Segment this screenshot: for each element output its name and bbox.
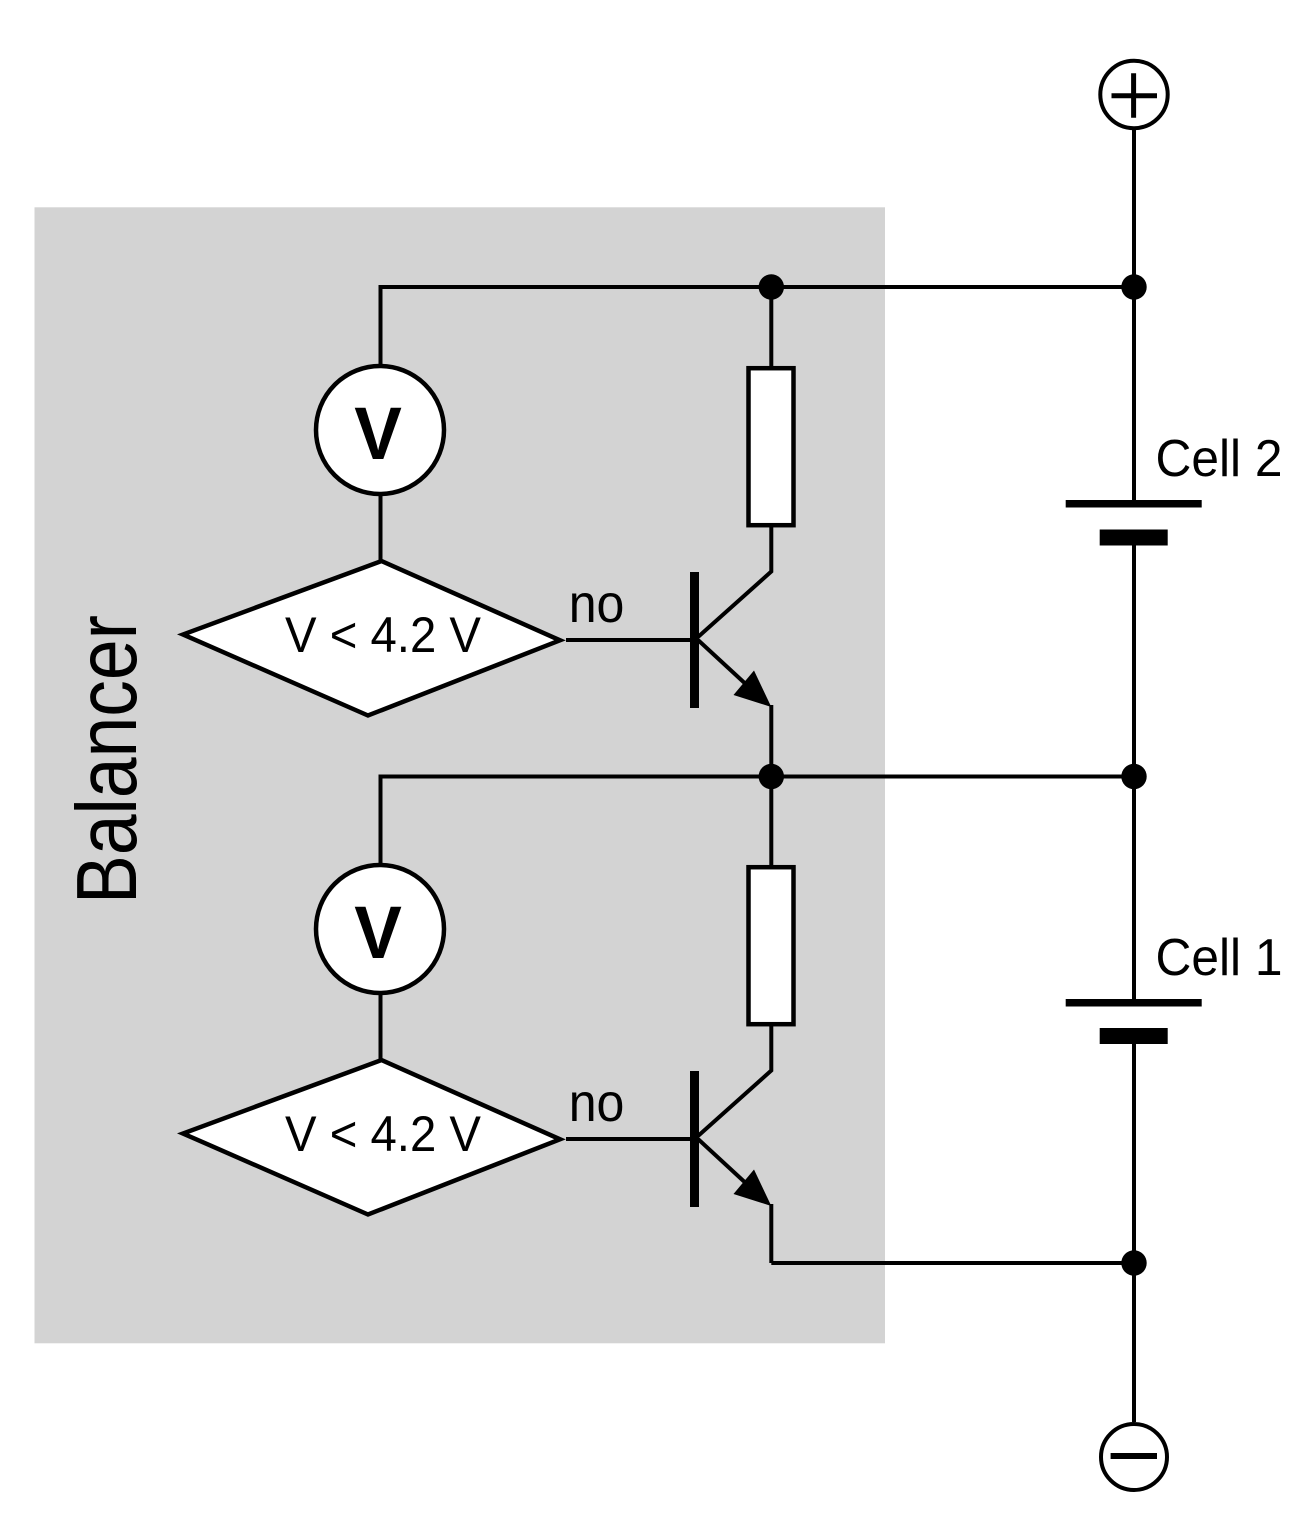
wire plus terminal to top rail — [1132, 130, 1136, 287]
wire mid rail — [381, 777, 1135, 866]
svg-text:no: no — [569, 1073, 625, 1133]
node junction top-right — [1121, 274, 1146, 299]
resistor R1 — [749, 867, 794, 1024]
svg-text:Balancer: Balancer — [60, 615, 155, 904]
wire bottom rail to minus terminal — [1132, 1263, 1136, 1422]
resistor R2 — [749, 368, 794, 525]
wire top rail to R2 — [769, 287, 773, 368]
node junction mid-right — [1121, 764, 1146, 789]
battery Cell 2 — [1066, 504, 1202, 538]
wire top rail — [381, 287, 1135, 366]
wire base D2 to Q2 — [566, 638, 690, 642]
transistor Q1 base bar — [690, 1071, 699, 1207]
svg-text:Cell 2: Cell 2 — [1156, 430, 1283, 488]
wire Cell 2 to mid rail — [1132, 546, 1136, 777]
terminal minus — [1101, 1424, 1167, 1490]
transistor Q1 emitter with arrow — [698, 1139, 771, 1263]
wire mid rail to R1 — [769, 777, 773, 868]
wire top rail to Cell 2 — [1132, 287, 1136, 500]
svg-text:V: V — [354, 392, 402, 475]
decision D2 diamond — [183, 561, 560, 716]
svg-text:Cell 1: Cell 1 — [1156, 929, 1283, 987]
wire voltmeter M1 to decision D1 — [379, 993, 383, 1062]
wire voltmeter M2 to decision D2 — [379, 494, 383, 562]
balancer enclosure box — [35, 207, 886, 1343]
svg-text:V < 4.2 V: V < 4.2 V — [285, 1106, 482, 1162]
wire Cell 1 to bottom rail — [1132, 1044, 1136, 1263]
svg-text:V: V — [354, 891, 402, 974]
terminal plus — [1100, 61, 1167, 128]
voltmeter M1 — [316, 865, 444, 993]
transistor Q2 base bar — [690, 572, 699, 708]
battery Cell 1 — [1066, 1003, 1202, 1036]
wire mid rail to Cell 1 — [1132, 777, 1136, 1000]
voltmeter M2 — [316, 366, 444, 494]
svg-text:no: no — [569, 574, 625, 634]
wire Q2 collector — [698, 525, 771, 637]
decision D1 diamond — [183, 1060, 560, 1215]
node junction bottom-right — [1121, 1250, 1146, 1275]
wire bottom rail — [771, 1261, 1134, 1265]
wire base D1 to Q1 — [566, 1137, 690, 1141]
node junction top-center — [759, 274, 784, 299]
transistor Q2 emitter with arrow — [698, 640, 771, 777]
node junction mid-center — [759, 764, 784, 789]
svg-text:V < 4.2 V: V < 4.2 V — [285, 607, 482, 663]
wire Q1 collector — [698, 1024, 771, 1136]
